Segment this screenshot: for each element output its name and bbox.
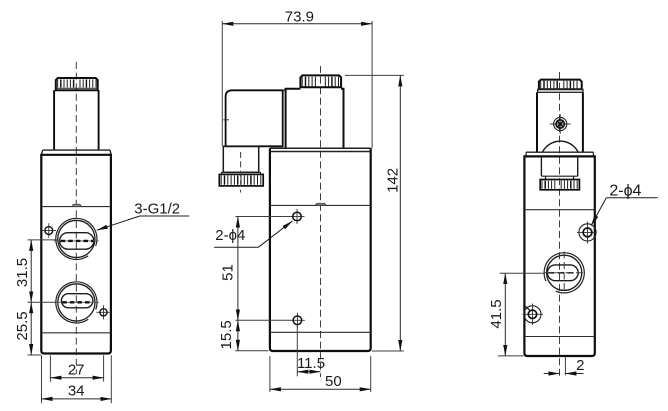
screw hole lower-right bbox=[96, 311, 110, 313]
valve body top plate middle view bbox=[270, 147, 371, 149]
screw hole lower-left (phi 4) bbox=[532, 304, 534, 326]
solenoid tube seen through (right view) bbox=[540, 156, 542, 176]
gland centerline bbox=[240, 152, 242, 193]
body joint line lower (right view) bbox=[524, 336, 594, 338]
valve side view (middle) bbox=[214, 9, 404, 392]
centerline middle view bbox=[320, 66, 322, 377]
cap base band bbox=[538, 89, 583, 92]
valve body outline left view bbox=[41, 155, 111, 354]
body joint line upper bbox=[41, 206, 111, 208]
screw hole upper-right (phi 4) bbox=[587, 222, 589, 244]
svg-text:2-ϕ4: 2-ϕ4 bbox=[609, 182, 641, 199]
knurled cap (manual override) left view bbox=[56, 78, 98, 90]
center bump (middle view) bbox=[315, 203, 326, 205]
port 1 (upper G1/2) bbox=[56, 218, 97, 259]
DIN connector plug middle view bbox=[226, 90, 283, 146]
valve body outline middle view bbox=[270, 148, 371, 351]
connector seam tick bbox=[223, 119, 229, 121]
dimension 27 bbox=[49, 355, 51, 381]
svg-text:73.9: 73.9 bbox=[285, 9, 314, 26]
valve front view (left) bbox=[14, 62, 189, 403]
dimension 34 bbox=[41, 355, 43, 403]
dimension 25.5 bbox=[28, 354, 42, 356]
screw hole upper-left bbox=[42, 230, 56, 232]
svg-text:51: 51 bbox=[220, 264, 237, 281]
knurled gland nut bbox=[219, 174, 263, 186]
svg-text:41.5: 41.5 bbox=[488, 299, 505, 328]
valve body outline right view bbox=[524, 156, 594, 356]
svg-text:142: 142 bbox=[385, 168, 402, 193]
mounting hole upper (phi 4) bbox=[290, 216, 305, 218]
base flange (right view) bbox=[526, 151, 593, 153]
body joint line upper (middle view) bbox=[270, 204, 371, 206]
body joint line lower (middle view) bbox=[270, 331, 371, 333]
dimension 31.5 bbox=[28, 239, 58, 241]
port 2 (lower G1/2) bbox=[56, 282, 97, 323]
port vertical centermark bbox=[563, 252, 565, 294]
svg-text:2: 2 bbox=[576, 357, 584, 374]
connector screw (phillips) bbox=[559, 114, 561, 134]
dimension 51 bbox=[235, 216, 290, 218]
knurled ring (right view) bbox=[540, 180, 579, 190]
svg-text:11.5: 11.5 bbox=[297, 355, 325, 372]
svg-text:34: 34 bbox=[68, 383, 85, 400]
svg-text:15.5: 15.5 bbox=[218, 320, 235, 349]
center bump on joint line bbox=[72, 204, 82, 206]
gland lip bbox=[222, 172, 261, 174]
knurled top nut middle view bbox=[300, 75, 341, 87]
valve side view (right) bbox=[488, 72, 658, 376]
svg-text:25.5: 25.5 bbox=[14, 311, 31, 340]
dimension 2 bbox=[564, 357, 566, 376]
dimension 11.5 bbox=[297, 371, 320, 373]
dimension 73.9 bbox=[221, 21, 223, 146]
svg-text:31.5: 31.5 bbox=[14, 258, 31, 287]
solenoid cylinder left view bbox=[53, 90, 55, 150]
solenoid body middle view bbox=[286, 89, 344, 149]
centerline left view bbox=[75, 62, 77, 374]
solenoid base flange left view bbox=[43, 149, 111, 151]
knurled cap right view bbox=[539, 80, 582, 90]
side port (right view) bbox=[544, 253, 584, 293]
armature dome (right view) bbox=[542, 141, 578, 152]
dimension 41.5 bbox=[500, 272, 545, 274]
body joint line upper (right view) bbox=[524, 209, 594, 211]
svg-text:50: 50 bbox=[325, 373, 342, 390]
DIN connector front (right view) bbox=[536, 92, 538, 152]
port horizontal centermark bbox=[545, 272, 587, 274]
mounting hole lower (phi 4) bbox=[290, 319, 305, 321]
svg-text:3-G1/2: 3-G1/2 bbox=[134, 201, 180, 218]
dimension 142 bbox=[345, 74, 404, 76]
extension line from lower hole bbox=[296, 325, 298, 377]
svg-text:27: 27 bbox=[68, 361, 85, 378]
svg-text:2-ϕ4: 2-ϕ4 bbox=[215, 227, 245, 244]
centerline right view bbox=[559, 72, 561, 376]
dimension 15.5 bbox=[235, 350, 268, 352]
body joint line lower bbox=[41, 332, 111, 334]
dimension 50 bbox=[269, 356, 271, 392]
cable gland body bbox=[223, 146, 258, 172]
